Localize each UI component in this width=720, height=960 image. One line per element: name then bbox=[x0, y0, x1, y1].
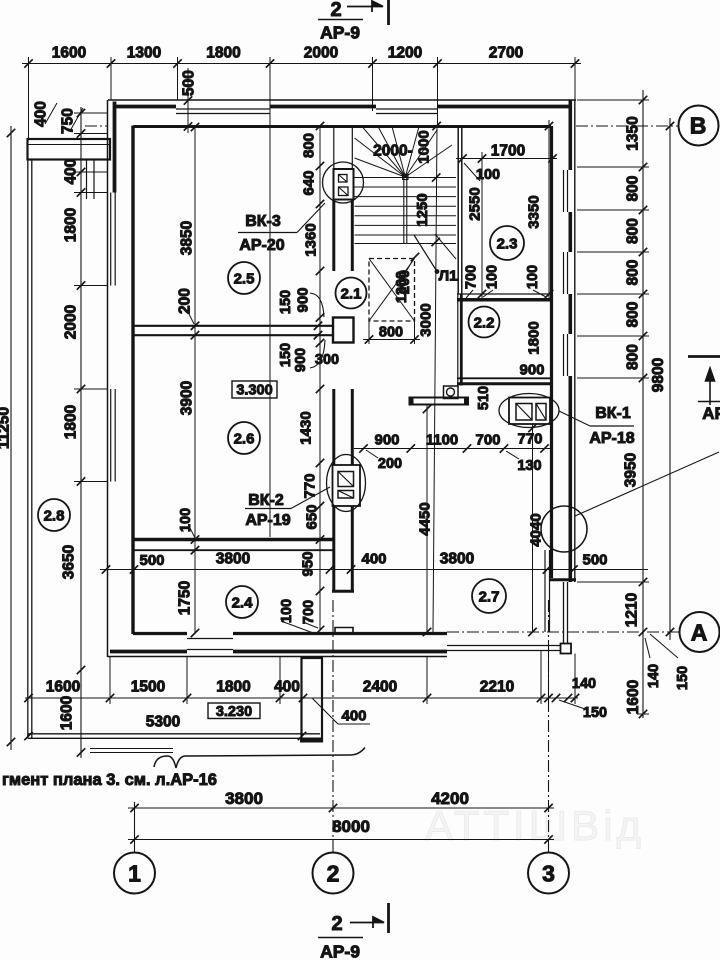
svg-text:11250: 11250 bbox=[0, 407, 13, 449]
room circle 2.7 bbox=[472, 579, 506, 613]
porch steps top-left bbox=[86, 160, 88, 200]
svg-text:В: В bbox=[690, 112, 707, 138]
svg-text:3000: 3000 bbox=[417, 303, 434, 336]
detail circle bbox=[541, 506, 587, 552]
svg-text:140: 140 bbox=[572, 676, 596, 692]
partition between 2.5 and 2.6 bbox=[134, 325, 334, 327]
svg-text:3: 3 bbox=[542, 860, 555, 886]
svg-text:2000: 2000 bbox=[304, 45, 338, 62]
svg-text:1210: 1210 bbox=[624, 593, 641, 627]
svg-text:900: 900 bbox=[294, 287, 311, 312]
outer left chain 11250 bbox=[10, 126, 12, 750]
bottom row A bbox=[25, 697, 578, 699]
porch left edge bbox=[27, 160, 29, 739]
grid bubble 2 bbox=[313, 853, 354, 894]
svg-text:500: 500 bbox=[582, 551, 607, 568]
svg-text:5300: 5300 bbox=[146, 714, 180, 731]
room 2.2 bottom wall bbox=[457, 377, 552, 379]
svg-text:1750: 1750 bbox=[177, 581, 194, 615]
svg-text:2.7: 2.7 bbox=[479, 588, 500, 605]
window left upper (1800) bbox=[110, 193, 112, 286]
svg-text:2: 2 bbox=[327, 860, 340, 886]
svg-text:3350: 3350 bbox=[525, 195, 542, 228]
svg-text:3950: 3950 bbox=[623, 453, 640, 487]
interior wall pier 300 bbox=[333, 318, 354, 343]
dashed future opening box bbox=[369, 259, 415, 322]
svg-text:3800: 3800 bbox=[216, 551, 250, 568]
stair winder fan lines bbox=[355, 158, 406, 177]
exterior wall left, outer face bbox=[107, 100, 109, 657]
interior load wall below VK-3 bbox=[332, 200, 335, 272]
bottom axis dim row 8000 bbox=[128, 839, 554, 841]
extension long x=270 bbox=[269, 100, 271, 326]
room 2.2 top wall bbox=[457, 293, 551, 295]
exterior wall bottom, outer face bbox=[108, 656, 448, 658]
terrace railing post bbox=[561, 644, 572, 654]
svg-text:гмент плана 3. см. л.АР-16: гмент плана 3. см. л.АР-16 bbox=[2, 771, 217, 789]
svg-text:А: А bbox=[691, 619, 708, 645]
svg-text:1600: 1600 bbox=[52, 45, 86, 62]
chain 4450 bbox=[426, 405, 428, 633]
svg-text:140: 140 bbox=[646, 664, 662, 688]
long interior extension line x=433 bbox=[433, 126, 437, 632]
svg-text:1600: 1600 bbox=[625, 680, 642, 714]
svg-text:400: 400 bbox=[63, 159, 80, 185]
right chain 1 bbox=[642, 90, 644, 718]
svg-text:200: 200 bbox=[378, 456, 402, 472]
exterior wall right, inner face bbox=[550, 126, 553, 578]
svg-text:2000-: 2000- bbox=[373, 143, 413, 160]
svg-text:800: 800 bbox=[379, 325, 403, 341]
svg-text:800: 800 bbox=[625, 344, 642, 370]
grid bubble 3 bbox=[528, 853, 569, 894]
svg-text:100: 100 bbox=[279, 599, 295, 623]
svg-text:400: 400 bbox=[341, 707, 366, 724]
room 2.2 left wall bbox=[457, 294, 459, 386]
porch step lines bottom bbox=[90, 748, 173, 750]
interior load wall mid bbox=[332, 389, 335, 465]
svg-text:АР-9: АР-9 bbox=[320, 941, 360, 960]
terrace railing right bbox=[563, 582, 565, 644]
chain x=320 bbox=[319, 126, 321, 630]
svg-text:400: 400 bbox=[33, 101, 50, 127]
floor drain bbox=[444, 386, 459, 399]
svg-text:2.3: 2.3 bbox=[497, 235, 518, 252]
svg-text:ВК-2: ВК-2 bbox=[248, 492, 284, 509]
svg-text:1800: 1800 bbox=[216, 679, 250, 696]
interior load wall lower bbox=[332, 507, 335, 593]
dim 3350 in 2.3 bbox=[548, 120, 550, 300]
svg-text:650: 650 bbox=[303, 504, 320, 529]
svg-text:3800: 3800 bbox=[225, 789, 263, 808]
svg-text:АР: АР bbox=[702, 404, 720, 423]
fragment brace bbox=[154, 748, 365, 769]
porch slab top-left bbox=[28, 139, 111, 160]
exterior wall bottom, inner face bbox=[133, 632, 187, 635]
svg-text:1600: 1600 bbox=[59, 696, 76, 730]
wall end cap at door bbox=[332, 590, 354, 593]
exterior wall top, outer face bbox=[108, 99, 576, 101]
svg-text:2.5: 2.5 bbox=[234, 270, 255, 287]
vent block VK-3 bbox=[334, 169, 354, 200]
svg-text:2.6: 2.6 bbox=[234, 430, 255, 447]
room circle 2.8 bbox=[38, 499, 70, 531]
dim 1700 in 2.3 bbox=[456, 158, 557, 160]
terrace railing bottom-right bbox=[447, 645, 561, 647]
vent block VK-1 bbox=[499, 394, 559, 428]
svg-text:150: 150 bbox=[278, 343, 294, 367]
stair treads bbox=[355, 177, 457, 179]
stair stringer node bbox=[403, 174, 408, 179]
svg-text:1350: 1350 bbox=[625, 116, 642, 150]
svg-text:АР-20: АР-20 bbox=[239, 237, 284, 254]
wall between 2.6 and 2.4 bbox=[133, 538, 334, 542]
svg-text:1300: 1300 bbox=[127, 45, 161, 62]
chain 4040 bbox=[532, 424, 534, 632]
grid bubble A bbox=[680, 612, 720, 652]
svg-text:1000: 1000 bbox=[415, 130, 432, 163]
windows right wall (800 x3) bbox=[563, 170, 565, 212]
svg-text:700: 700 bbox=[301, 600, 317, 624]
dim 2550 in 2.3 bbox=[481, 152, 483, 300]
svg-text:750: 750 bbox=[60, 108, 77, 134]
axis A bbox=[447, 631, 679, 633]
svg-text:1100: 1100 bbox=[426, 431, 459, 448]
svg-text:2700: 2700 bbox=[489, 45, 523, 62]
svg-text:200: 200 bbox=[177, 288, 194, 314]
top dimension line bbox=[22, 63, 581, 65]
svg-text:3800: 3800 bbox=[440, 551, 474, 568]
svg-text:150: 150 bbox=[675, 666, 691, 690]
svg-text:3900: 3900 bbox=[179, 381, 196, 415]
svg-text:400: 400 bbox=[361, 550, 386, 567]
svg-text:1700: 1700 bbox=[491, 143, 525, 160]
stub wall in 2.7 bbox=[410, 398, 469, 405]
svg-text:640: 640 bbox=[300, 170, 317, 195]
left dimension chain bbox=[80, 107, 82, 758]
svg-text:АР-19: АР-19 bbox=[245, 512, 290, 529]
svg-text:1600: 1600 bbox=[46, 679, 80, 696]
svg-text:100: 100 bbox=[485, 265, 501, 289]
row 500/3800/400/3800 bbox=[100, 569, 648, 571]
svg-text:500: 500 bbox=[139, 552, 164, 569]
svg-text:2550: 2550 bbox=[466, 187, 483, 220]
chain x=195 room heights bbox=[194, 127, 196, 633]
svg-text:2.1: 2.1 bbox=[341, 285, 362, 302]
exterior wall bottom, thick segments bbox=[110, 650, 187, 654]
axis 3 bbox=[548, 600, 550, 852]
svg-text:100: 100 bbox=[178, 508, 194, 532]
svg-text:510: 510 bbox=[476, 386, 492, 410]
svg-text:АТТІШВід: АТТІШВід bbox=[425, 802, 645, 849]
svg-text:130: 130 bbox=[517, 458, 541, 474]
svg-text:1200: 1200 bbox=[388, 45, 422, 62]
svg-text:3.300: 3.300 bbox=[236, 383, 272, 399]
svg-text:8000: 8000 bbox=[332, 817, 370, 836]
stair stringer bbox=[403, 175, 405, 244]
svg-text:770: 770 bbox=[517, 430, 542, 447]
room circle 2.1 bbox=[336, 278, 367, 309]
axis 2 bbox=[332, 600, 334, 852]
svg-text:800: 800 bbox=[625, 260, 642, 286]
svg-text:500: 500 bbox=[181, 70, 198, 96]
porch bottom edge bbox=[28, 733, 320, 735]
svg-text:ВК-3: ВК-3 bbox=[245, 213, 281, 230]
row 900/1100/700/770 bbox=[354, 448, 551, 450]
svg-text:800: 800 bbox=[625, 218, 642, 244]
stair dims 1000 / 1250 on extension line bbox=[432, 122, 440, 130]
svg-text:1500: 1500 bbox=[131, 679, 165, 696]
axis 1 bbox=[134, 802, 136, 852]
svg-text:400: 400 bbox=[274, 679, 300, 696]
svg-text:1800: 1800 bbox=[63, 405, 80, 439]
svg-text:ВК-1: ВК-1 bbox=[595, 405, 631, 422]
svg-text:200: 200 bbox=[397, 270, 413, 294]
exterior wall left, thick segment top pier bbox=[113, 102, 117, 193]
terrace inner edge bbox=[544, 550, 546, 632]
svg-text:700: 700 bbox=[475, 431, 500, 448]
svg-text:150: 150 bbox=[583, 705, 607, 721]
room circle 2.6 bbox=[228, 422, 260, 454]
threshold tab near axis 2 bbox=[335, 628, 353, 634]
vent block VK-2 bbox=[327, 455, 366, 512]
axis B bbox=[85, 125, 108, 127]
svg-text:2000: 2000 bbox=[63, 305, 80, 339]
svg-text:900: 900 bbox=[374, 431, 399, 448]
svg-text:2400: 2400 bbox=[363, 679, 397, 696]
elevation box 3.230 bbox=[208, 703, 260, 719]
porch pier bottom cap bbox=[300, 738, 323, 743]
svg-text:9800: 9800 bbox=[650, 358, 667, 392]
svg-text:2: 2 bbox=[330, 0, 341, 21]
room circle 2.3 bbox=[490, 226, 524, 260]
exterior wall top, inner face bbox=[134, 125, 552, 128]
svg-text:1360: 1360 bbox=[302, 223, 319, 256]
elevation box 3.300 bbox=[232, 381, 277, 398]
svg-text:1800: 1800 bbox=[63, 208, 80, 242]
svg-text:800: 800 bbox=[300, 133, 317, 158]
svg-text:700: 700 bbox=[464, 265, 480, 289]
svg-text:300: 300 bbox=[315, 352, 339, 368]
svg-text:3850: 3850 bbox=[179, 221, 196, 255]
exterior wall right, thick pier segments bbox=[568, 100, 572, 170]
svg-text:150: 150 bbox=[278, 290, 294, 314]
svg-text:1800: 1800 bbox=[206, 45, 240, 62]
section mark right bbox=[688, 355, 720, 358]
svg-text:1: 1 bbox=[128, 860, 141, 886]
svg-text:2210: 2210 bbox=[480, 679, 514, 696]
svg-text:АР-18: АР-18 bbox=[589, 430, 634, 447]
svg-text:1800: 1800 bbox=[525, 321, 542, 354]
exterior wall top, thick segments bbox=[114, 105, 176, 109]
top dimension extension lines bbox=[28, 57, 30, 139]
dim 800 under box bbox=[363, 339, 420, 341]
bottom axis dim row 3800/4200 bbox=[128, 807, 554, 809]
porch pier bbox=[302, 658, 323, 741]
svg-text:АР-9: АР-9 bbox=[320, 22, 360, 42]
stair partition / room 2.3 left wall bbox=[457, 126, 459, 294]
svg-text:900: 900 bbox=[293, 348, 309, 372]
svg-text:2.2: 2.2 bbox=[474, 314, 495, 331]
svg-text:2.8: 2.8 bbox=[44, 507, 65, 524]
svg-text:800: 800 bbox=[625, 176, 642, 202]
stair leader to L1 bbox=[435, 234, 456, 259]
svg-text:3.230: 3.230 bbox=[216, 704, 252, 720]
svg-text:1430: 1430 bbox=[297, 411, 314, 444]
svg-text:950: 950 bbox=[299, 551, 316, 576]
svg-text:100: 100 bbox=[525, 265, 541, 289]
grid bubble 1 bbox=[114, 853, 155, 894]
window W2 top (1200) bbox=[376, 108, 438, 110]
exterior wall left, inner face bbox=[131, 126, 134, 635]
window W1 top (1800) bbox=[176, 108, 270, 110]
svg-text:800: 800 bbox=[625, 302, 642, 328]
row 5300 bbox=[24, 732, 32, 740]
window left lower (1800) bbox=[110, 389, 112, 482]
svg-text:2.4: 2.4 bbox=[232, 594, 254, 611]
svg-text:4450: 4450 bbox=[416, 502, 433, 535]
right wall bottom cap bbox=[549, 578, 576, 581]
right chain 2 (9800) bbox=[669, 118, 671, 640]
svg-text:900: 900 bbox=[519, 361, 544, 378]
room circle 2.5 bbox=[228, 262, 260, 294]
svg-text:2: 2 bbox=[331, 913, 342, 935]
svg-text:3650: 3650 bbox=[61, 545, 78, 579]
exterior wall right, outer faces bbox=[574, 100, 576, 582]
room circle 2.4 bbox=[226, 586, 258, 618]
grid bubble B bbox=[679, 106, 719, 146]
svg-text:Л1: Л1 bbox=[439, 267, 458, 284]
door in bottom wall bbox=[187, 638, 233, 640]
svg-text:4040: 4040 bbox=[527, 513, 544, 546]
room circle 2.2 bbox=[469, 307, 500, 338]
svg-text:1250: 1250 bbox=[414, 193, 431, 226]
interior load wall x=333-353 upper thin part bbox=[333, 126, 335, 169]
